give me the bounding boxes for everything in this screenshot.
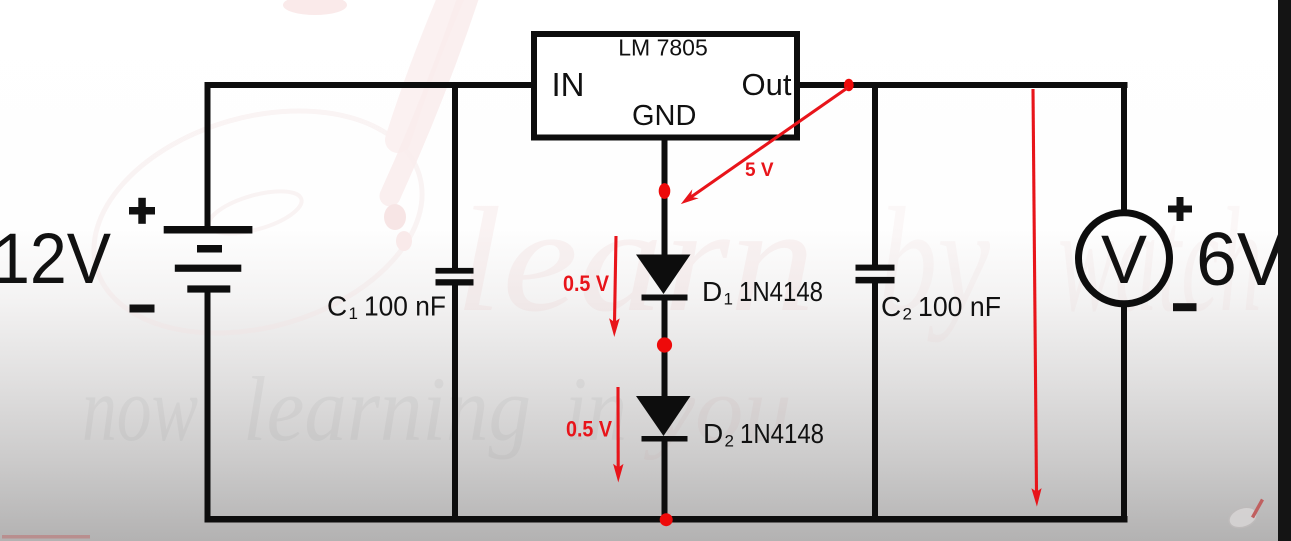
label C2 100 nF xyxy=(881,291,1001,324)
svg-text:LM 7805: LM 7805 xyxy=(618,35,708,61)
battery minus sign xyxy=(130,305,155,313)
wire: battery negative stub down to bottom rail xyxy=(205,292,211,523)
capacitor C2: top plate xyxy=(856,265,895,271)
svg-text:2: 2 xyxy=(903,305,912,324)
svg-text:IN: IN xyxy=(552,66,585,103)
wire: C2 bottom stub to bottom rail xyxy=(872,283,878,523)
diode D1 cathode bar xyxy=(642,295,688,301)
wire: C1 bottom stub to bottom rail xyxy=(452,285,458,523)
diode D2 cathode bar xyxy=(642,436,688,442)
wire: D2 cathode to bottom rail xyxy=(662,439,668,523)
voltmeter V circle xyxy=(1079,213,1170,304)
wire: Out pin to top right corner xyxy=(797,82,1128,88)
battery plus sign xyxy=(129,198,155,224)
capacitor C2: bottom plate xyxy=(856,277,895,284)
voltmeter minus sign xyxy=(1173,303,1197,311)
wire: C2 branch from top rail xyxy=(872,85,878,265)
capacitor C1: bottom plate xyxy=(436,279,474,285)
annotation: red diagonal arrow 5V from Out dot to GND node xyxy=(681,88,848,205)
wire: top left rail from battery to IN pin xyxy=(205,82,538,88)
annotation: long red down arrow at right (output voltage) xyxy=(1031,89,1041,507)
diode D2 triangle xyxy=(636,396,691,436)
wire: voltmeter top stub xyxy=(1121,85,1127,212)
svg-text:learn: learn xyxy=(455,177,815,343)
regulator U1 LM7805 box xyxy=(534,34,797,138)
voltmeter plus sign xyxy=(1168,197,1192,221)
svg-text:5 V: 5 V xyxy=(745,160,774,181)
watermark: gray script "now learning in you" xyxy=(82,358,792,460)
svg-text:2: 2 xyxy=(725,432,734,451)
label D1 1N4148 xyxy=(702,276,823,309)
wire: battery positive stub xyxy=(205,82,211,227)
svg-text:0.5 V: 0.5 V xyxy=(566,417,612,442)
node: red dot on bottom rail xyxy=(660,513,673,526)
svg-text:D: D xyxy=(703,418,723,449)
diode D1 triangle xyxy=(636,255,691,295)
svg-text:100 nF: 100 nF xyxy=(364,291,446,322)
svg-text:1N4148: 1N4148 xyxy=(740,418,824,449)
svg-text:now: now xyxy=(82,358,198,460)
watermark: big pink ellipse logo xyxy=(68,75,449,369)
svg-text:100 nF: 100 nF xyxy=(918,291,1001,322)
wire: GND pin down to diode D1 xyxy=(662,138,668,256)
wire: between D1 and D2 xyxy=(662,298,668,398)
battery B1: short plate dash xyxy=(197,245,222,253)
node: red dot below GND pin (5V node) xyxy=(659,183,671,199)
bottom left faint red progress line xyxy=(2,535,90,539)
svg-text:1N4148: 1N4148 xyxy=(739,276,823,307)
watermark: pink script "learn by watch" xyxy=(455,177,1262,343)
wire: C1 branch from top rail xyxy=(452,85,458,269)
watermark: pink pen/brush stroke top center xyxy=(283,0,470,251)
battery B1: plate 2 long xyxy=(175,265,242,272)
svg-text:12V: 12V xyxy=(0,220,112,299)
node: red dot between D1 and D2 xyxy=(657,337,672,352)
svg-text:6V: 6V xyxy=(1196,217,1286,301)
svg-text:C: C xyxy=(327,291,347,322)
wire: bottom rail xyxy=(205,516,1128,523)
svg-text:Out: Out xyxy=(742,67,792,102)
battery B1 12V: plate 1 long (+) xyxy=(164,226,253,234)
battery B1: plate 3 short xyxy=(187,285,230,292)
annotation: red down arrow beside D2 xyxy=(613,387,623,483)
wire: voltmeter bottom stub xyxy=(1121,303,1127,523)
right black bar xyxy=(1278,0,1291,541)
svg-text:learning: learning xyxy=(243,358,531,460)
watermark: bottom right spoon icon xyxy=(1226,500,1262,532)
svg-text:0.5 V: 0.5 V xyxy=(563,271,609,296)
svg-text:GND: GND xyxy=(632,100,696,132)
svg-text:V: V xyxy=(1101,221,1147,298)
node: red junction dot on Out rail xyxy=(844,79,854,91)
svg-text:D: D xyxy=(702,276,722,307)
annotation: red down arrow beside D1 xyxy=(609,236,620,337)
capacitor C1: top plate xyxy=(436,268,474,274)
label D2 1N4148 xyxy=(703,418,824,451)
svg-text:1: 1 xyxy=(724,290,733,309)
label C1 100 nF xyxy=(327,291,446,324)
svg-text:C: C xyxy=(881,291,901,322)
svg-text:1: 1 xyxy=(349,304,358,323)
